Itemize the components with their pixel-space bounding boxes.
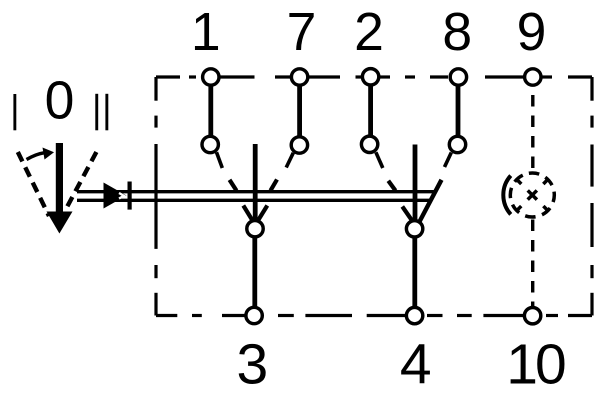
svg-text:10: 10 xyxy=(506,332,565,396)
lamp X diagonal NW-SE xyxy=(517,179,548,210)
label terminal 1 xyxy=(191,3,221,62)
terminal 10 circle xyxy=(524,308,540,324)
svg-text:4: 4 xyxy=(400,332,432,396)
lamp L dashed circle xyxy=(507,170,557,220)
lamp X diagonal NE-SW xyxy=(517,179,548,210)
contact 2 fixed circle pair xyxy=(361,69,378,153)
pole B fork left leg xyxy=(402,207,412,221)
svg-text:8: 8 xyxy=(442,3,472,62)
pole A fork right leg xyxy=(258,206,267,221)
contact 1 tail xyxy=(217,152,223,168)
contact 7 fixed circle pair xyxy=(291,69,308,153)
pole A left tick xyxy=(230,180,237,191)
contact 7 tail xyxy=(286,153,293,168)
lever arrowhead xyxy=(47,212,73,234)
switch housing dashed border right xyxy=(590,77,593,316)
position label II xyxy=(95,94,108,131)
wire lamp to terminal 10 dashed xyxy=(531,220,534,307)
label terminal 8 xyxy=(442,3,472,62)
contact 8 tail xyxy=(445,153,452,168)
lever dashed position II xyxy=(67,152,96,207)
svg-text:2: 2 xyxy=(354,3,384,62)
position label I xyxy=(13,94,16,130)
wire terminal 2 stem xyxy=(368,84,373,137)
contact 8 fixed circle pair xyxy=(449,69,466,153)
pole B lever diagonal xyxy=(419,180,441,222)
label terminal 9 xyxy=(517,3,547,62)
lever bar position 0 xyxy=(56,143,63,213)
wire terminal 7 stem xyxy=(297,84,302,137)
lamp reflector paren xyxy=(503,176,510,215)
svg-text:0: 0 xyxy=(45,72,75,131)
terminal 4 circle xyxy=(406,307,422,323)
pole A moving contact circle xyxy=(247,221,263,237)
svg-text:1: 1 xyxy=(191,3,221,62)
switch housing dashed border bottom xyxy=(156,314,592,317)
actuator rod upper line xyxy=(77,190,434,193)
pole A right tick xyxy=(271,180,278,191)
actuator rod lower line xyxy=(77,199,430,202)
pole A centre post xyxy=(253,144,258,220)
label terminal 2 xyxy=(354,3,384,62)
actuator arrow white notch xyxy=(119,193,124,199)
pole B left tick xyxy=(388,181,395,191)
label terminal 4 xyxy=(400,332,432,396)
switch housing dashed border left xyxy=(154,77,157,316)
pole B centre post xyxy=(413,145,418,222)
switch housing dashed border top xyxy=(156,75,592,78)
label terminal 7 xyxy=(287,3,317,62)
wire terminal 1 stem xyxy=(208,84,213,137)
toggle arrow curved xyxy=(27,148,55,160)
wire terminal 9 to lamp dashed xyxy=(531,95,534,171)
wire pole A to terminal 3 xyxy=(252,238,257,308)
actuator crossbar xyxy=(128,182,132,210)
wire pole B to terminal 4 xyxy=(412,238,417,308)
wire terminal 8 stem xyxy=(456,84,461,137)
svg-text:3: 3 xyxy=(237,332,269,396)
svg-text:9: 9 xyxy=(517,3,547,62)
position label 0 xyxy=(45,72,75,131)
actuator arrow triangle xyxy=(104,183,127,209)
lever dashed position I xyxy=(18,152,49,216)
terminal 3 circle xyxy=(246,307,262,323)
terminal 9 circle xyxy=(525,69,541,85)
pole A fork left leg xyxy=(243,206,252,221)
pole B moving contact circle xyxy=(406,221,422,237)
contact 2 tail xyxy=(376,152,383,168)
label terminal 3 xyxy=(237,332,269,396)
label terminal 10 xyxy=(506,332,565,396)
svg-text:7: 7 xyxy=(287,3,317,62)
contact 1 fixed circle pair xyxy=(202,69,219,153)
